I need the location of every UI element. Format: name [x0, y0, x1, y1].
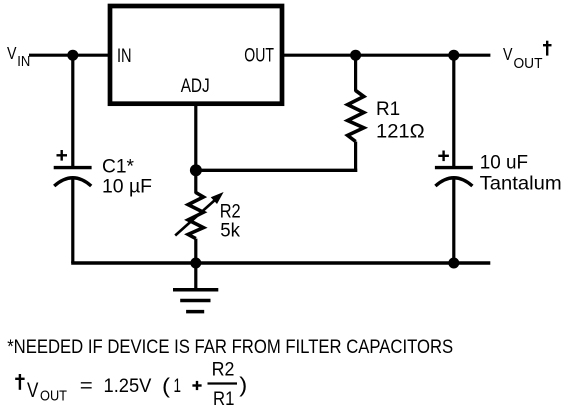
capacitor C2 lead to rail: [452, 179, 455, 264]
resistor R2 zigzag: [188, 193, 203, 239]
svg-text:5k: 5k: [220, 220, 240, 242]
ground bar 2: [180, 299, 210, 303]
wire OUT to VOUT: [282, 54, 490, 57]
formula fraction bar: [208, 382, 238, 384]
resistor R1 bottom lead: [354, 142, 357, 172]
wire ADJ to R1: [196, 169, 357, 172]
capacitor C2 plus sign: [438, 155, 449, 157]
svg-text:Tantalum: Tantalum: [480, 173, 562, 195]
svg-text:IN: IN: [17, 53, 30, 70]
resistor R1 zigzag: [348, 91, 364, 142]
capacitor C1 top plate: [54, 166, 92, 169]
capacitor C2 top plate: [435, 166, 473, 169]
bottom rail wire: [71, 261, 490, 264]
svg-text:=: =: [80, 375, 93, 397]
resistor R1 top lead: [354, 55, 357, 91]
ground bar 3: [186, 310, 204, 314]
capacitor C1 curved plate: [54, 178, 91, 186]
svg-text:): ): [239, 373, 247, 397]
junction rail/C2: [448, 258, 459, 269]
wire ADJ pin down: [194, 103, 197, 194]
junction VIN/C1: [67, 50, 78, 61]
svg-text:V: V: [27, 379, 38, 402]
dagger superscript at VOUT: [546, 41, 548, 56]
ground stem: [194, 263, 197, 290]
svg-text:1: 1: [174, 375, 182, 397]
svg-text:IN: IN: [117, 45, 132, 67]
svg-text:C1*: C1*: [102, 156, 134, 178]
svg-text:R1: R1: [376, 98, 400, 120]
junction rail/R2: [190, 258, 201, 269]
junction ADJ: [190, 164, 202, 176]
resistor R2 arrow shaft: [175, 200, 215, 236]
resistor R2 bottom lead: [194, 239, 197, 263]
svg-text:10 µF: 10 µF: [102, 176, 152, 198]
capacitor C1 plus sign: [57, 154, 68, 156]
svg-text:10 uF: 10 uF: [480, 152, 528, 174]
capacitor C1 lead from VIN: [71, 55, 74, 166]
svg-text:1.25V: 1.25V: [104, 375, 152, 397]
regulator U1 box: [110, 6, 282, 104]
svg-text:OUT: OUT: [40, 388, 67, 405]
svg-text:121Ω: 121Ω: [376, 121, 425, 143]
svg-text:ADJ: ADJ: [181, 75, 210, 97]
ground bar 1: [173, 288, 218, 292]
svg-text:OUT: OUT: [514, 55, 543, 72]
svg-text:OUT: OUT: [244, 45, 274, 67]
svg-text:R1: R1: [213, 388, 234, 410]
svg-text:V: V: [7, 43, 17, 63]
capacitor C2 lead from VOUT: [452, 55, 455, 166]
junction OUT/C2: [448, 50, 459, 61]
capacitor C1 lead to rail: [71, 179, 74, 264]
svg-text:R2: R2: [212, 359, 235, 381]
wire VIN to box: [29, 54, 110, 57]
formula plus sign: [192, 384, 201, 386]
formula dagger: [19, 374, 21, 390]
resistor R2 arrowhead: [212, 193, 223, 203]
junction OUT/R1: [350, 50, 361, 61]
svg-text:*NEEDED IF DEVICE IS FAR FROM: *NEEDED IF DEVICE IS FAR FROM FILTER CAP…: [7, 336, 453, 358]
svg-text:(: (: [162, 374, 171, 398]
svg-text:V: V: [503, 44, 513, 64]
capacitor C2 curved plate: [435, 178, 472, 186]
